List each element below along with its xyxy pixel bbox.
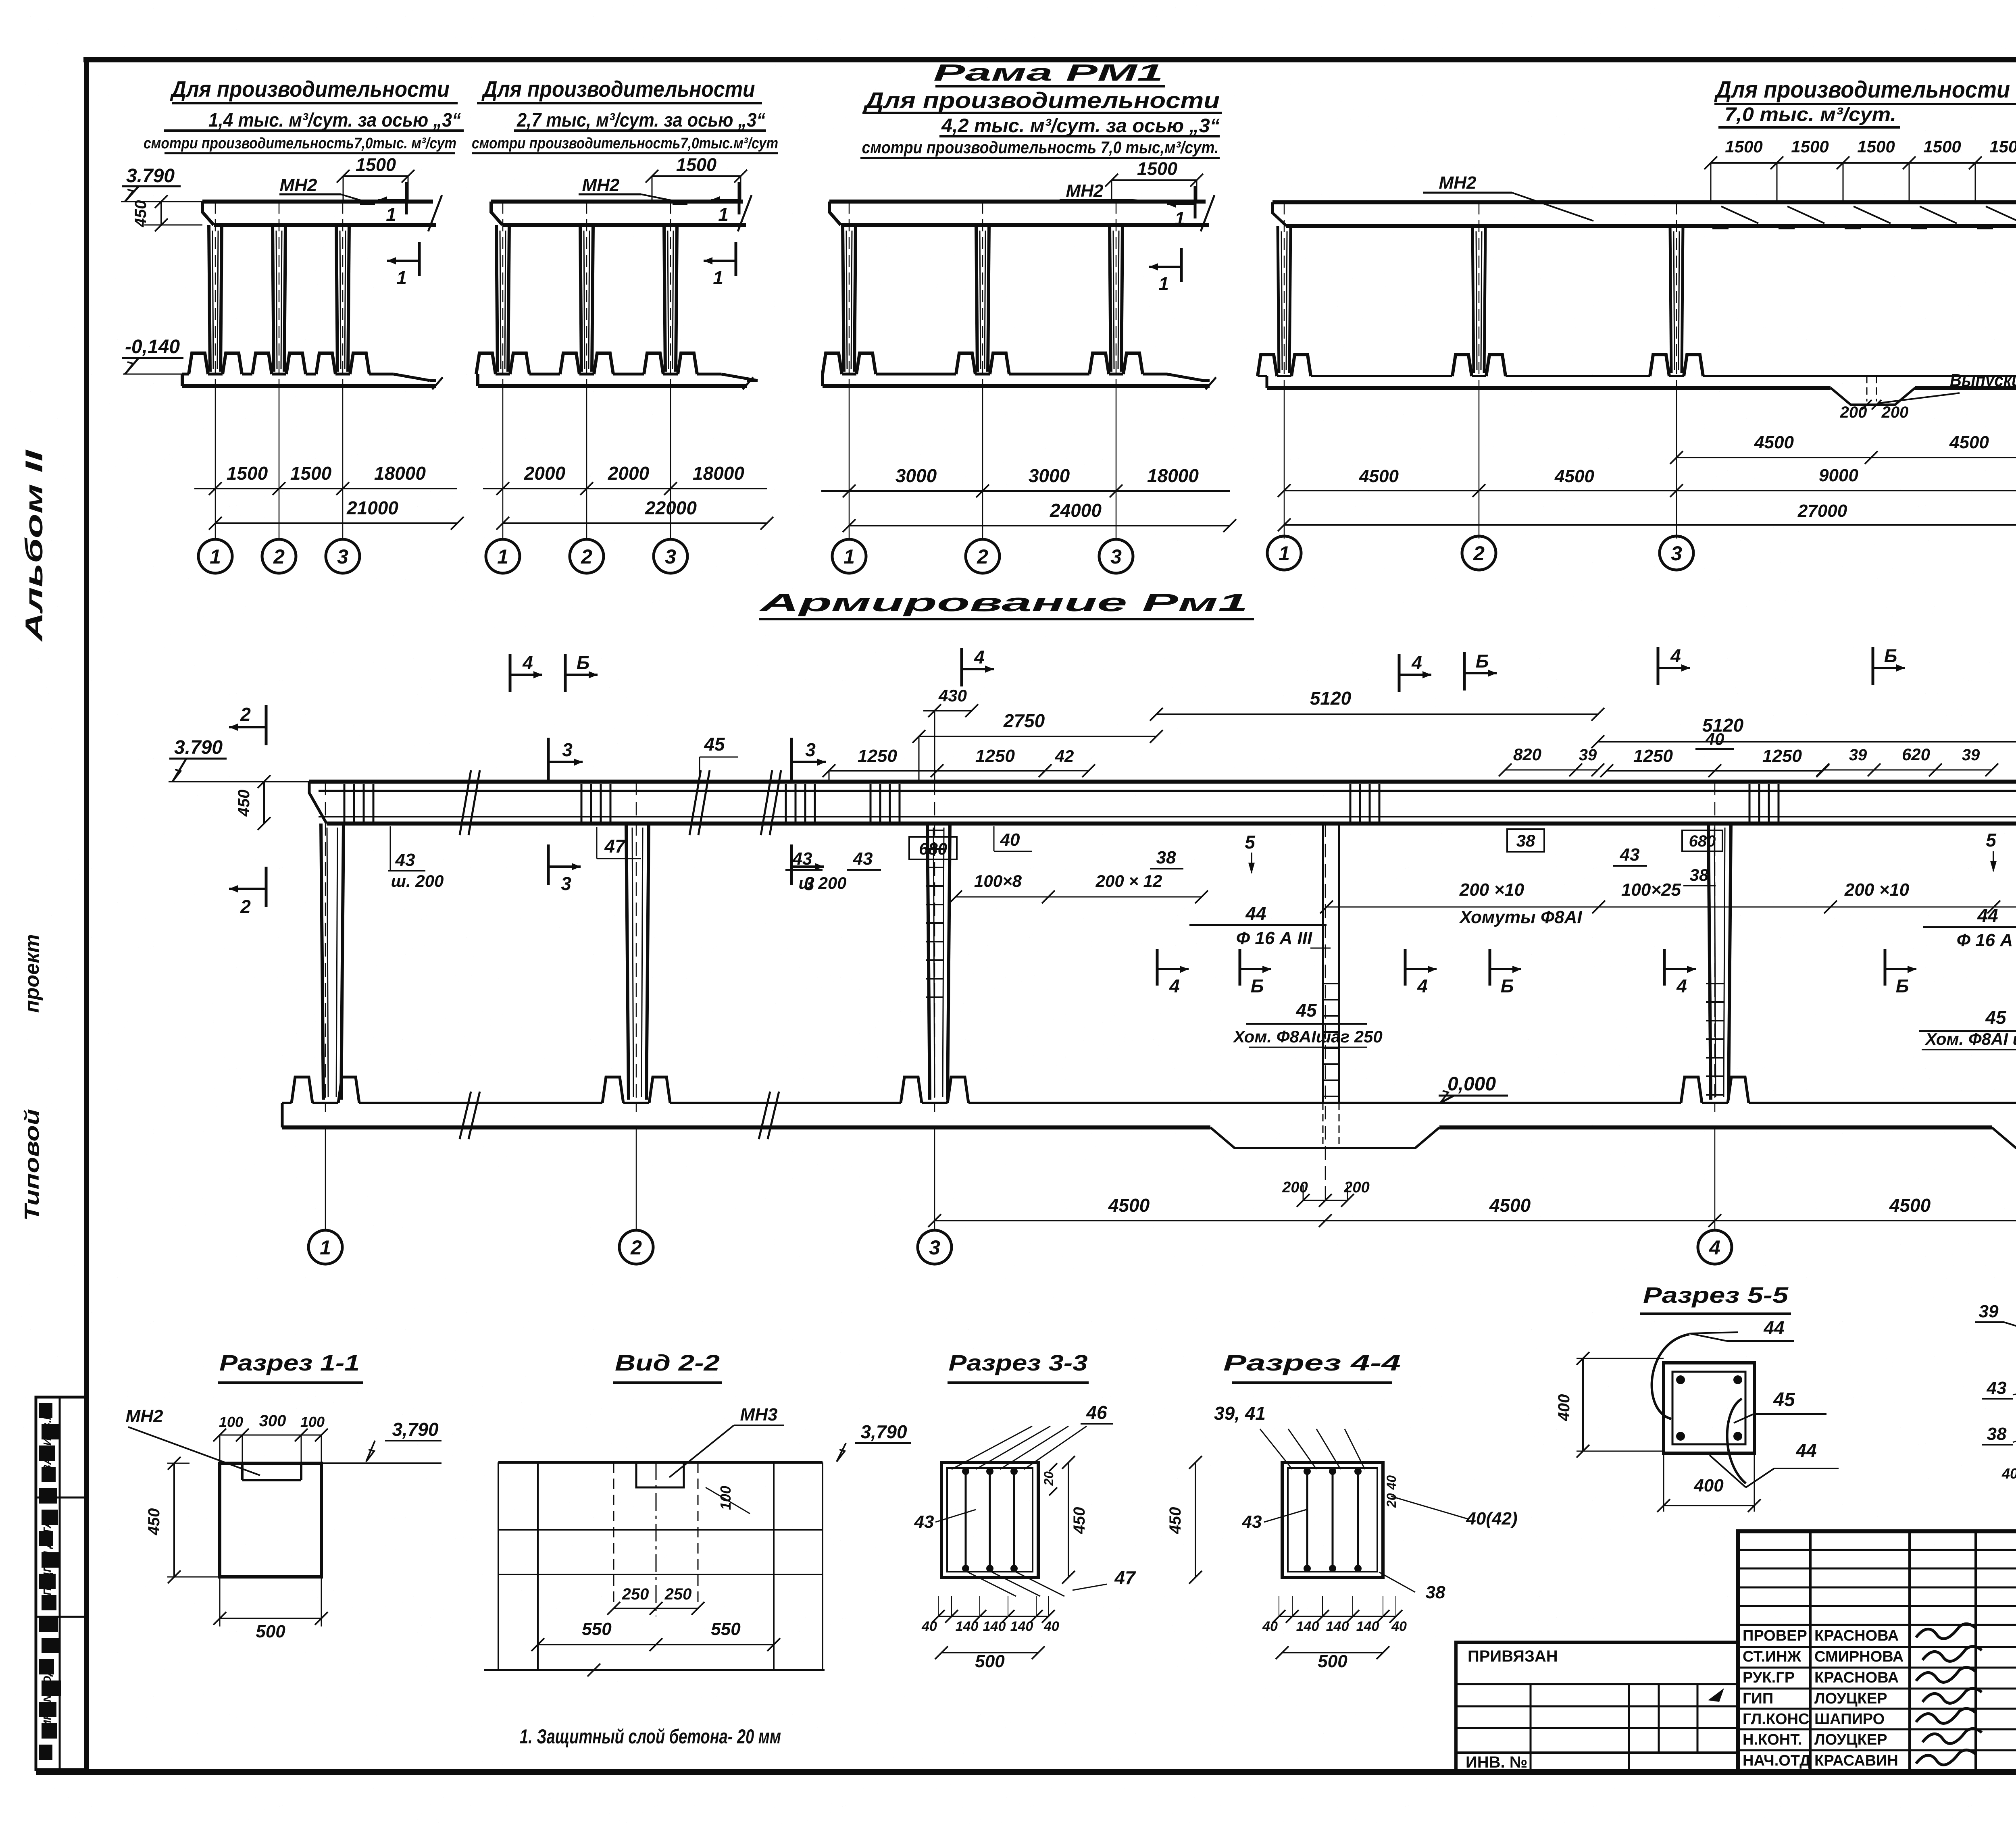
svg-text:Н.КОНТ.: Н.КОНТ. (1743, 1731, 1802, 1748)
band dim 5120 no.1 (1156, 713, 1598, 715)
svg-text:500: 500 (256, 1622, 285, 1641)
sheet border bottom (36, 1769, 2016, 1775)
svg-text:2: 2 (630, 1236, 642, 1259)
privyazan tick mark (1708, 1688, 1724, 1702)
svg-text:4: 4 (1411, 652, 1422, 673)
svg-text:250: 250 (622, 1585, 649, 1603)
svg-text:43: 43 (395, 850, 415, 870)
svg-text:Б: Б (1501, 975, 1514, 996)
section 5-5 hook arc right (1727, 1399, 1746, 1483)
svg-text:2000: 2000 (524, 463, 566, 484)
band dim 5120 no.2 (1598, 741, 2016, 742)
elevation 2 top dim 1500 (652, 175, 741, 177)
svg-text:Для производительности: Для производительности (481, 76, 755, 102)
label 44 Ф16АIII right (1923, 926, 2016, 928)
svg-text:200 ×10: 200 ×10 (1459, 880, 1524, 900)
svg-text:Альбом II: Альбом II (21, 449, 48, 643)
svg-text:2: 2 (240, 896, 251, 917)
view 2-2 dashed anchor lines (613, 1462, 614, 1608)
svg-text:3: 3 (561, 873, 571, 894)
svg-text:ПРОВЕР: ПРОВЕР (1743, 1627, 1807, 1644)
elevation 4 footing (1266, 376, 1268, 388)
svg-text:140: 140 (1010, 1619, 1033, 1634)
elevation 4 bottom joint rebar stubs (1866, 376, 1868, 401)
elevation 4 slab plate marks and hatch diagonals (1721, 206, 1758, 223)
svg-text:Выпуски арматуры днища: Выпуски арматуры днища (1950, 370, 2016, 390)
svg-text:40: 40 (1000, 830, 1020, 850)
svg-text:-0,140: -0,140 (125, 336, 180, 358)
section 1-1 square (220, 1463, 321, 1577)
svg-text:ИНВ. №: ИНВ. № (1466, 1753, 1527, 1771)
svg-text:100×8: 100×8 (974, 871, 1022, 890)
svg-text:39: 39 (1979, 1302, 1999, 1321)
svg-text:ш. 200: ш. 200 (391, 871, 444, 890)
section 3-3 rebar verticals (965, 1469, 967, 1571)
svg-text:ЛОУЦКЕР: ЛОУЦКЕР (1814, 1690, 1887, 1707)
svg-text:200 ×10: 200 ×10 (1844, 880, 1910, 900)
dim 100x8 200x12 left (956, 896, 1202, 898)
svg-text:НАЧ.ОТД: НАЧ.ОТД (1743, 1752, 1810, 1769)
svg-text:21000: 21000 (346, 497, 398, 518)
svg-text:5120: 5120 (1702, 715, 1744, 736)
svg-text:40: 40 (2001, 1465, 2016, 1482)
section 5-5 dim 400 bottom (1664, 1505, 1754, 1506)
label 45 Хом left (1246, 1023, 1367, 1025)
svg-text:2: 2 (273, 545, 285, 568)
svg-text:РУК.ГР: РУК.ГР (1743, 1669, 1795, 1686)
svg-text:3000: 3000 (1029, 465, 1070, 486)
svg-text:100: 100 (300, 1414, 325, 1430)
svg-text:4500: 4500 (1949, 433, 1989, 452)
elevation 4 dim row 27000 (1284, 524, 2016, 526)
middle elevation section flag 2 lower (265, 867, 268, 907)
svg-text:1500: 1500 (1725, 137, 1762, 156)
svg-text:4: 4 (1169, 975, 1180, 996)
svg-text:300: 300 (259, 1412, 286, 1430)
svg-text:400: 400 (1555, 1394, 1573, 1422)
svg-text:550: 550 (711, 1619, 741, 1639)
elevation 4 slab (1272, 200, 2016, 204)
elevation 2 axis circles (486, 539, 520, 573)
elevation 4 dim row 4500/9000 (1284, 490, 2016, 491)
svg-text:2: 2 (581, 545, 592, 568)
svg-text:проект: проект (21, 934, 43, 1013)
band dims 1250 1250 around axis 4 (1607, 770, 1823, 772)
title block signatures squiggles (1916, 1624, 1975, 1639)
view 2-2 drawing outline (498, 1461, 823, 1464)
svg-text:1500: 1500 (676, 154, 716, 175)
view 2-2 MH3 plate (636, 1462, 684, 1487)
svg-text:0,000: 0,000 (1447, 1073, 1496, 1095)
section 1-1 dim 500 bottom (220, 1618, 321, 1619)
svg-text:200 × 12: 200 × 12 (1095, 871, 1162, 890)
section 3-3 inner stirrup (947, 1468, 1033, 1572)
svg-text:1250: 1250 (975, 746, 1015, 766)
svg-text:МН2: МН2 (582, 175, 620, 195)
svg-text:3,790: 3,790 (392, 1419, 439, 1440)
dims 200x10 100x25 row (1327, 907, 2016, 908)
elevation 1 axis lines (215, 387, 216, 539)
svg-text:450: 450 (132, 200, 150, 228)
svg-text:42: 42 (1055, 747, 1074, 765)
middle elevation footing (281, 1103, 284, 1127)
svg-text:4,2 тыс. м³/сут. за осью „3“: 4,2 тыс. м³/сут. за осью „3“ (941, 115, 1220, 137)
svg-text:43: 43 (1620, 845, 1640, 865)
svg-text:38: 38 (1156, 848, 1176, 867)
elevation 1 section flag 1 lower (418, 242, 421, 276)
flags 4 Б below (1156, 949, 1159, 986)
svg-text:43: 43 (1242, 1512, 1262, 1532)
middle elevation footing break marks (460, 1092, 471, 1139)
svg-text:40(42): 40(42) (1466, 1509, 1517, 1529)
band dim 1250+1250 left of axis 3 (829, 770, 1045, 772)
section 4-4 bottom dims (1279, 1616, 1396, 1617)
svg-text:250: 250 (664, 1585, 692, 1603)
elevation 2 section flag 1 lower (735, 242, 737, 276)
elevation 3 top dim 1500 (1112, 179, 1197, 181)
svg-text:1: 1 (320, 1236, 331, 1259)
svg-text:24000: 24000 (1050, 500, 1102, 521)
svg-text:45: 45 (704, 734, 725, 755)
svg-text:100×25: 100×25 (1621, 880, 1681, 900)
svg-text:4: 4 (522, 652, 533, 673)
middle elevation axis lines to circles (325, 1127, 326, 1230)
elevation 3 section flag 1 lower (1180, 248, 1183, 282)
svg-text:Типовой: Типовой (21, 1109, 43, 1221)
svg-text:39, 41: 39, 41 (1214, 1403, 1266, 1424)
svg-text:КРАСНОВА: КРАСНОВА (1814, 1669, 1899, 1686)
svg-text:680: 680 (1689, 832, 1716, 850)
elevation 2 footing (476, 374, 479, 386)
svg-text:1250: 1250 (1633, 746, 1673, 766)
section 3-3 dim 500 (941, 1652, 1038, 1653)
left margin dense stamp column (39, 1403, 52, 1418)
privyazan table frame (1456, 1642, 1738, 1771)
elevation 4 axis circles (1267, 536, 1301, 570)
svg-text:40: 40 (1391, 1619, 1407, 1634)
elevation 1 section flag 1 upper (405, 182, 408, 214)
svg-text:СМИРНОВА: СМИРНОВА (1814, 1648, 1904, 1665)
svg-text:Разрез 4-4: Разрез 4-4 (1223, 1350, 1401, 1375)
svg-text:200: 200 (1343, 1179, 1369, 1196)
svg-text:1500: 1500 (1923, 137, 1961, 156)
svg-text:44: 44 (1763, 1317, 1784, 1338)
section 5-5 hook arc left (1652, 1334, 1689, 1419)
title block left grid horizontals (1738, 1549, 2016, 1551)
svg-text:550: 550 (582, 1619, 612, 1639)
svg-text:450: 450 (235, 790, 253, 817)
svg-text:38: 38 (1426, 1583, 1445, 1602)
title block left grid verticals (1809, 1531, 1812, 1771)
middle elevation slab stirrup hatch clusters (344, 784, 346, 822)
svg-text:43: 43 (853, 849, 873, 869)
svg-text:МН2: МН2 (126, 1406, 163, 1426)
svg-text:5120: 5120 (1310, 688, 1352, 709)
svg-text:Армирование Рм1: Армирование Рм1 (758, 589, 1248, 617)
elevation 3 axis circles (832, 539, 866, 573)
svg-text:смотри производительность 7,0: смотри производительность 7,0 тыс,м³/сут… (862, 138, 1219, 157)
elevation 2 section flag 1 upper (738, 182, 741, 214)
svg-text:4: 4 (1709, 1236, 1720, 1259)
elevation 1 axis circles (198, 539, 232, 573)
svg-text:500: 500 (975, 1651, 1005, 1671)
left margin filing table (36, 1397, 86, 1770)
svg-text:МН2: МН2 (1066, 181, 1104, 201)
svg-text:18000: 18000 (374, 463, 426, 484)
svg-text:1: 1 (386, 204, 396, 225)
svg-text:44: 44 (1795, 1440, 1816, 1461)
svg-text:1500: 1500 (356, 154, 396, 175)
svg-text:ШАПИРО: ШАПИРО (1814, 1711, 1885, 1728)
svg-text:47: 47 (1114, 1567, 1136, 1588)
elevation 1 top dim 1500 (343, 175, 408, 177)
svg-text:44: 44 (1977, 905, 1998, 926)
svg-text:38: 38 (1690, 865, 1709, 884)
view 2-2 dims 250 250 (614, 1608, 698, 1609)
svg-text:Для производительности: Для производительности (170, 76, 450, 102)
elevation 2 roof slab (491, 200, 743, 204)
sheet border top (83, 57, 2016, 62)
svg-text:Б: Б (577, 652, 590, 673)
svg-text:1500: 1500 (1791, 137, 1829, 156)
svg-text:Б: Б (1884, 645, 1897, 666)
svg-text:1500: 1500 (227, 463, 268, 484)
label 680 boxed left (909, 837, 957, 859)
svg-text:43: 43 (792, 849, 812, 869)
section 3-3 dim 450 right (1068, 1462, 1069, 1577)
svg-text:7,0 тыс. м³/сут.: 7,0 тыс. м³/сут. (1724, 104, 1896, 125)
svg-text:200: 200 (1840, 403, 1867, 421)
label 38 boxed right1 (1507, 829, 1544, 852)
svg-text:4: 4 (1670, 645, 1681, 666)
section 3-3 bottom dims 40 140x3 40 (938, 1616, 1048, 1617)
svg-text:44: 44 (1245, 903, 1266, 924)
svg-text:Б: Б (1251, 975, 1264, 996)
svg-text:3: 3 (1110, 545, 1122, 568)
svg-text:3: 3 (929, 1236, 940, 1259)
svg-text:140: 140 (956, 1619, 979, 1634)
svg-text:ГЛ.КОНС: ГЛ.КОНС (1743, 1711, 1809, 1728)
sheet border left (84, 57, 89, 1773)
svg-text:38: 38 (1516, 831, 1535, 850)
svg-text:Для производительности: Для производительности (863, 87, 1220, 113)
middle elevation construction joints (1322, 824, 1324, 1103)
svg-text:1: 1 (210, 545, 221, 568)
svg-text:1500: 1500 (1989, 137, 2016, 156)
svg-text:20 40: 20 40 (1384, 1475, 1399, 1508)
svg-text:3.790: 3.790 (126, 165, 175, 187)
svg-text:ш 200: ш 200 (798, 874, 846, 892)
svg-text:Б: Б (1896, 975, 1909, 996)
elevation 2 columns (496, 225, 498, 372)
svg-text:450: 450 (1070, 1507, 1088, 1535)
view 2-2 bottom tick (587, 1664, 600, 1676)
svg-text:Хом. Ф8АI шаг 250: Хом. Ф8АI шаг 250 (1924, 1030, 2016, 1048)
svg-text:40: 40 (1262, 1619, 1278, 1634)
svg-text:Вид 2-2: Вид 2-2 (615, 1350, 720, 1375)
svg-text:5: 5 (1245, 832, 1256, 853)
middle elevation bottom dim row 4500 (935, 1220, 2016, 1221)
privyazan table grid (1456, 1683, 1738, 1685)
svg-text:2: 2 (1473, 542, 1485, 565)
svg-text:ГИП: ГИП (1743, 1690, 1773, 1707)
svg-text:смотри производительность7,0ты: смотри производительность7,0тыс.м³/сут (472, 135, 778, 152)
svg-text:1500: 1500 (1137, 158, 1177, 179)
section 5-5 rebar dots (1676, 1375, 1685, 1384)
svg-text:3.790: 3.790 (174, 737, 223, 758)
svg-text:1,4 тыс. м³/сут. за осью „3“: 1,4 тыс. м³/сут. за осью „3“ (208, 110, 461, 131)
svg-text:Хом. Ф8АIшаг 250: Хом. Ф8АIшаг 250 (1233, 1027, 1383, 1046)
svg-text:22000: 22000 (645, 497, 697, 518)
svg-text:МН2: МН2 (280, 175, 317, 195)
svg-text:200: 200 (1881, 403, 1909, 421)
svg-text:3: 3 (337, 545, 348, 568)
label 44 Ф16АIII left (1189, 924, 1327, 926)
band dim 2750 (919, 736, 1156, 737)
svg-text:4500: 4500 (1754, 433, 1794, 452)
svg-text:45: 45 (1985, 1007, 2007, 1028)
svg-text:смотри производительность7,0ты: смотри производительность7,0тыс. м³/сут (144, 135, 456, 152)
section flags 3 in band (547, 738, 550, 782)
title block outer frame (1738, 1531, 2016, 1771)
elevation 3 roof slab (829, 200, 1206, 204)
elevation 3 dimension row 2 total (849, 525, 1230, 526)
elevation 1 footing (181, 374, 184, 386)
elevation 2 dimension row 2 total (503, 522, 767, 524)
svg-text:100: 100 (717, 1486, 734, 1510)
svg-text:27000: 27000 (1797, 501, 1847, 521)
elevation 4 top dims 1500 x12 (1711, 162, 2016, 164)
elevation 1 dimension row 1 (194, 488, 457, 489)
elevation 3 footing (821, 374, 824, 386)
elevation 1 dimension row 2 total (215, 522, 457, 524)
svg-text:2750: 2750 (1003, 710, 1045, 731)
label 680 boxed right1 (1682, 830, 1722, 851)
svg-text:140: 140 (983, 1619, 1006, 1634)
svg-text:38: 38 (1987, 1424, 2007, 1444)
svg-text:140: 140 (1356, 1619, 1379, 1634)
elevation 1 dim 450 vertical (160, 202, 162, 225)
svg-text:МН3: МН3 (740, 1405, 778, 1425)
elevation 1 roof slab (202, 200, 433, 204)
svg-text:1500: 1500 (290, 463, 332, 484)
elevation 1 columns (209, 225, 210, 372)
section 5-5 outline (1664, 1363, 1754, 1453)
svg-text:40: 40 (1043, 1619, 1059, 1634)
svg-text:Ф 16 А III: Ф 16 А III (1236, 928, 1312, 948)
middle elevation slab rebar lines (319, 790, 2016, 792)
band dims 39 620 39 right of axis4 (1823, 770, 1992, 771)
svg-text:1500: 1500 (1857, 137, 1895, 156)
label 45 Хом right (1919, 1030, 2016, 1032)
svg-text:3: 3 (562, 739, 573, 760)
svg-text:45: 45 (1295, 1000, 1317, 1021)
elevation 2 dimension row 1 (483, 488, 767, 489)
flags 3 below slab (547, 844, 550, 885)
middle elevation axis circles (308, 1230, 342, 1264)
view 2-2 horizontal joints (498, 1529, 823, 1531)
svg-text:2: 2 (240, 704, 251, 725)
middle elevation slab (309, 780, 2016, 784)
section 3-3 outline (941, 1462, 1038, 1577)
svg-text:140: 140 (1296, 1619, 1319, 1634)
svg-text:200: 200 (1282, 1179, 1308, 1196)
svg-text:680: 680 (919, 839, 947, 858)
svg-text:4500: 4500 (1108, 1195, 1150, 1216)
svg-text:3: 3 (1671, 542, 1682, 565)
svg-text:43: 43 (1987, 1378, 2007, 1398)
svg-text:9000: 9000 (1819, 466, 1858, 485)
elevation 4 columns (1278, 226, 1279, 373)
svg-text:47: 47 (604, 836, 626, 857)
elevation 3 columns (843, 225, 844, 372)
svg-text:1: 1 (1279, 542, 1290, 565)
svg-text:ЛОУЦКЕР: ЛОУЦКЕР (1814, 1731, 1887, 1748)
elevation 3 dimension row 1 (821, 490, 1230, 492)
elevation 3 axis lines (849, 387, 850, 539)
svg-text:4500: 4500 (1554, 466, 1594, 486)
svg-text:39: 39 (1962, 746, 1980, 764)
view 2-2 dims 550 550 (538, 1644, 774, 1645)
flags below right part (1404, 949, 1407, 986)
svg-text:100: 100 (219, 1414, 243, 1430)
section 5-5 dim 400 left (1582, 1358, 1584, 1451)
svg-text:43: 43 (914, 1512, 934, 1532)
svg-text:Разрез 5-5: Разрез 5-5 (1643, 1282, 1789, 1308)
section 1-1 dim 450 left (173, 1463, 175, 1577)
svg-text:450: 450 (1166, 1507, 1184, 1535)
svg-text:820: 820 (1513, 745, 1541, 764)
svg-text:Б: Б (1476, 651, 1489, 672)
middle elevation slab break marks (460, 770, 471, 835)
svg-text:2,7 тыс, м³/сут. за осью „3“: 2,7 тыс, м³/сут. за осью „3“ (516, 110, 765, 131)
middle elevation columns (321, 824, 323, 1100)
svg-text:620: 620 (1902, 745, 1930, 764)
svg-text:Ф 16 А Ш: Ф 16 А Ш (1957, 930, 2016, 950)
svg-text:4: 4 (1676, 975, 1687, 996)
svg-text:500: 500 (1318, 1651, 1347, 1671)
svg-text:1. Защитный слой бетона- 20 мм: 1. Защитный слой бетона- 20 мм (520, 1725, 781, 1748)
svg-text:1: 1 (396, 267, 407, 288)
elevation 2 axis lines (502, 387, 504, 539)
svg-text:КРАСАВИН: КРАСАВИН (1814, 1752, 1898, 1769)
section 4-4 inner stirrup (1288, 1468, 1377, 1572)
svg-text:4500: 4500 (1889, 1195, 1931, 1216)
svg-text:450: 450 (145, 1508, 163, 1536)
svg-text:МН2: МН2 (1439, 173, 1477, 193)
band dim 430 (923, 710, 972, 711)
svg-text:3000: 3000 (896, 465, 937, 486)
svg-text:1: 1 (843, 545, 855, 568)
svg-text:Для производительности: Для производительности (1714, 77, 2010, 103)
svg-text:ПРИВЯЗАН: ПРИВЯЗАН (1468, 1647, 1558, 1665)
svg-text:400: 400 (1693, 1476, 1724, 1495)
section 4-4 rebar verticals (1306, 1469, 1308, 1571)
svg-text:1250: 1250 (858, 746, 897, 766)
svg-text:5: 5 (1986, 830, 1997, 851)
middle elevation joint dims 200 200 (1303, 1200, 1347, 1201)
svg-text:4500: 4500 (1489, 1195, 1531, 1216)
svg-text:430: 430 (938, 686, 967, 705)
svg-text:39: 39 (1849, 746, 1867, 764)
band section flags top (509, 654, 512, 692)
svg-text:1250: 1250 (1762, 746, 1802, 766)
svg-text:Рама РМ1: Рама РМ1 (933, 60, 1163, 86)
band dims 820 39 left (1505, 770, 1598, 771)
svg-text:Разрез 3-3: Разрез 3-3 (949, 1350, 1088, 1375)
svg-text:40: 40 (921, 1619, 937, 1634)
svg-text:39: 39 (1579, 746, 1597, 764)
